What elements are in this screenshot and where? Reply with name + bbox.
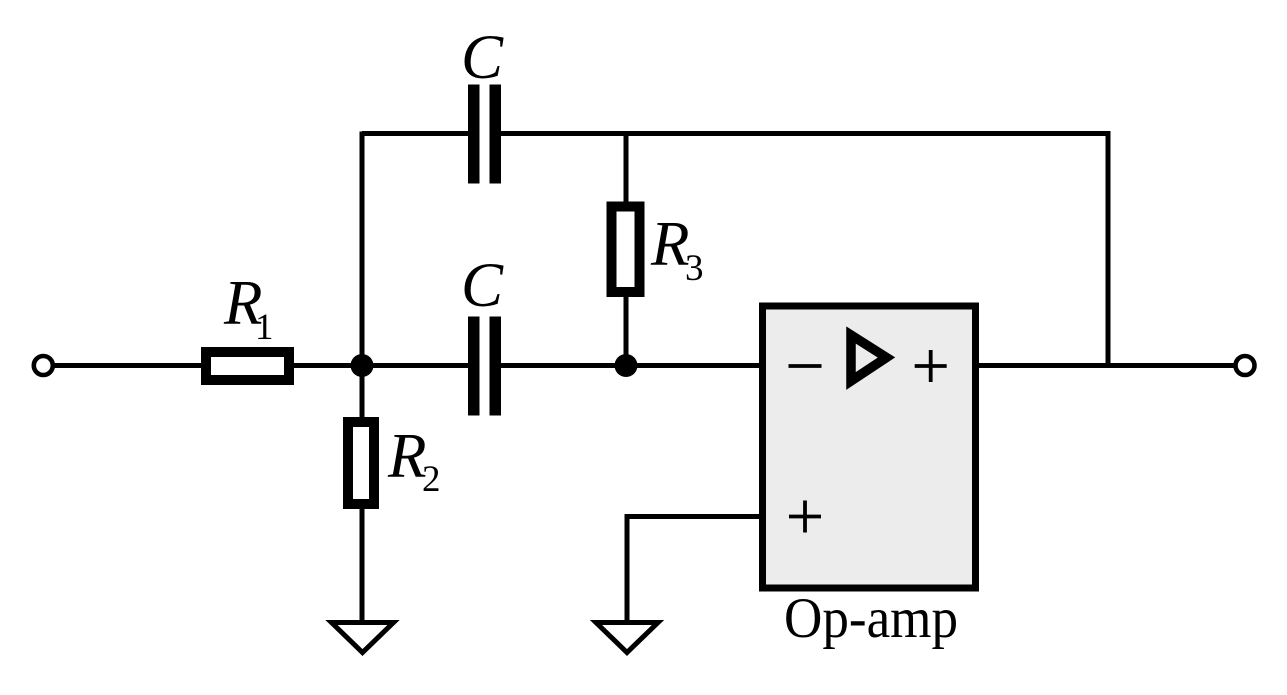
op-amp output plus sign [915,364,947,368]
capacitor C2 (middle) [468,317,480,416]
svg-text:R: R [387,421,426,491]
wire R3 bottom lead to node B [624,290,629,366]
svg-text:2: 2 [422,459,441,500]
resistor R1 [206,352,289,380]
svg-text:C: C [461,22,504,92]
resistor R3 [612,207,640,293]
svg-text:C: C [461,250,504,320]
wire R3 top lead [624,132,629,211]
node B junction dot [615,354,638,377]
wire input to R1 [50,363,203,368]
resistor R2 [348,422,374,504]
wire top rail left of C1 [362,131,470,136]
wire R2 bottom lead to ground [360,505,365,620]
svg-text:3: 3 [685,248,704,289]
capacitor C1 (top) [468,85,480,184]
op-amp gain triangle [851,335,887,381]
wire C2 to op-amp inverting input [499,363,762,368]
op-amp noninverting input plus sign [789,515,821,519]
input terminal [34,356,53,375]
svg-text:R: R [650,209,689,279]
ground (noninverting input) [596,623,658,653]
wire op-amp noninverting input to ground [627,517,762,621]
node A junction dot [351,354,374,377]
wire node A up to top rail [360,132,365,421]
wire R1 to capacitor C2 [292,363,470,368]
output terminal [1236,356,1255,375]
svg-text:Op-amp: Op-amp [784,587,958,650]
op-amp inverting input minus sign [789,364,822,368]
op-amp U1 body [763,306,976,588]
wire op-amp output to terminal [976,363,1245,368]
svg-text:1: 1 [255,307,274,348]
wire top rail right of C1 and feedback drop [499,134,1108,366]
ground (below R2) [332,623,394,653]
